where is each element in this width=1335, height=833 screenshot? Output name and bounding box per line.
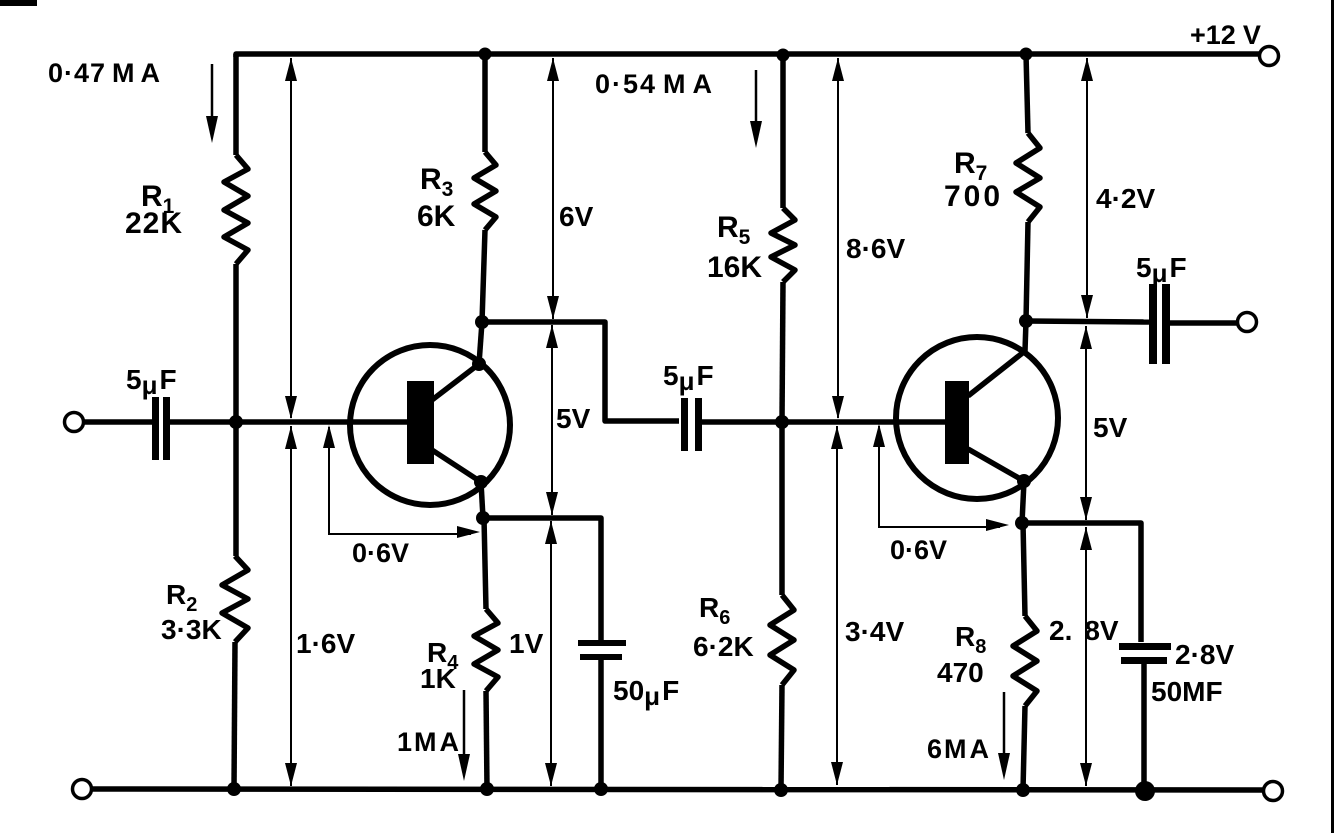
resistor R5: [771, 208, 795, 282]
wire R6 lower lead: [781, 685, 782, 790]
wire R8 upper lead: [1023, 523, 1025, 616]
node Q1 collector junction: [475, 315, 489, 329]
current arrow 6mA: [1003, 692, 1006, 756]
wire collector to coupling cap (stair): [482, 322, 679, 421]
measurement 6V: top rail to collector wire: [552, 58, 554, 319]
wire C5 to ground: [1141, 664, 1147, 791]
measurement 0.6V Q1: [329, 427, 471, 534]
transistor Q1 circle: [350, 345, 510, 505]
svg-text:8·6V: 8·6V: [846, 233, 905, 264]
wire R8 lower lead: [1023, 706, 1025, 790]
node Q2 collector junction: [1019, 314, 1033, 328]
terminal +12V: [1260, 47, 1279, 66]
svg-text:0·47MA: 0·47MA: [48, 58, 161, 88]
border right edge: [1331, 0, 1334, 833]
resistor R6: [770, 595, 794, 685]
node R7 top junction: [1020, 48, 1033, 61]
current arrow 0.47mA: [211, 64, 214, 120]
transistor Q2 collector stroke: [968, 351, 1025, 396]
wire R4 lower lead: [486, 691, 487, 789]
measurement 0.6V Q2: [879, 426, 1000, 527]
svg-text:0·54MA: 0·54MA: [595, 69, 714, 99]
node ground: R2: [227, 782, 241, 796]
capacitor C2 5uF plates: [681, 398, 688, 451]
svg-text:6K: 6K: [417, 200, 456, 233]
resistor R3: [474, 152, 496, 230]
terminal input: [65, 413, 84, 432]
transistor Q1 collector stroke: [432, 364, 479, 400]
wire R3 top lead: [482, 54, 488, 152]
svg-text:5V: 5V: [556, 403, 591, 434]
measurement 2.8V: emitter wire to ground: [1085, 527, 1087, 786]
svg-text:6V: 6V: [559, 201, 594, 232]
svg-text:3·3K: 3·3K: [161, 614, 222, 645]
svg-text:16K: 16K: [707, 251, 762, 284]
resistor R7: [1016, 133, 1040, 222]
svg-text:6MA: 6MA: [927, 734, 989, 764]
svg-text:50MF: 50MF: [1151, 676, 1223, 707]
svg-text:5μF: 5μF: [1136, 252, 1187, 288]
terminal ground right: [1264, 782, 1283, 801]
transistor Q2 emitter stroke: [968, 449, 1024, 481]
wire collector to output cap: [1026, 321, 1149, 322]
svg-text:5V: 5V: [1093, 412, 1128, 443]
wire input terminal to C1: [84, 419, 152, 425]
wire R5 to interstage node: [782, 282, 783, 422]
resistor R4: [474, 609, 498, 691]
resistor R2: [222, 556, 248, 642]
measurement 8.6V: top rail to base wire: [837, 58, 839, 418]
resistor R1: [224, 155, 248, 264]
svg-text:4·2V: 4·2V: [1096, 183, 1155, 214]
resistor R8: [1013, 616, 1037, 706]
wire R1 to R2: [233, 264, 239, 556]
wire Q2 emitter riser: [1022, 481, 1024, 523]
svg-text:3·4V: 3·4V: [845, 616, 904, 647]
measurement 4.2V: top rail to collector wire: [1086, 58, 1088, 318]
node R5 top junction: [777, 49, 790, 62]
wire left branch R1 upper lead: [233, 54, 239, 155]
svg-text:2.8V: 2.8V: [1049, 615, 1119, 646]
wire Q1 collector riser: [479, 322, 482, 364]
svg-text:1K: 1K: [420, 663, 456, 694]
node ground: C5 big: [1135, 781, 1155, 801]
measurement line left: base wire to ground (1.6V): [290, 426, 292, 786]
capacitor C4 5uF plates: [1149, 284, 1157, 364]
svg-text:0·6V: 0·6V: [890, 535, 947, 565]
ground rail: [92, 789, 1263, 790]
measurement 5V right: collector to emitter wire: [1085, 326, 1087, 520]
svg-text:1·6V: 1·6V: [296, 628, 355, 659]
node Q1 emitter-circle blob: [474, 475, 488, 489]
node ground: C3: [594, 782, 608, 796]
node ground: R6: [774, 783, 788, 797]
wire output cap to terminal: [1170, 320, 1237, 326]
measurement 5V: collector wire to emitter wire: [551, 325, 553, 515]
node R3 top junction: [479, 48, 492, 61]
terminal output: [1238, 313, 1257, 332]
svg-text:+12V: +12V: [1190, 20, 1261, 50]
wire R3 to collector node: [482, 230, 485, 322]
capacitor C1 5uF plates: [152, 397, 159, 460]
wire emitter to bypass cap corner: [483, 518, 601, 641]
border mark top-left: [0, 0, 37, 6]
terminal ground left: [73, 780, 92, 799]
current arrow 1mA: [463, 690, 466, 756]
svg-text:700: 700: [944, 180, 1003, 213]
wire R4 upper lead: [484, 518, 486, 609]
node Q2 emitter junction: [1015, 516, 1029, 530]
capacitor C3 50uF plates: [578, 640, 626, 646]
wire C2 to Q2 base: [702, 419, 946, 425]
node input bias junction: [229, 415, 243, 429]
current arrow 0.54mA: [755, 70, 758, 124]
+12V supply rail: [236, 54, 1259, 57]
wire R2 lower lead: [234, 642, 235, 789]
transistor Q1 emitter stroke: [432, 450, 481, 482]
node Q2 emitter-circle blob: [1017, 474, 1031, 488]
transistor Q2 circle: [896, 337, 1058, 499]
wire emitter to bypass cap corner: [1022, 523, 1141, 642]
capacitor C5 50uF plates: [1119, 643, 1171, 650]
node ground: R8: [1016, 783, 1030, 797]
wire R7 to collector node: [1026, 222, 1028, 321]
wire C3 to ground: [598, 660, 604, 789]
node ground: R4: [480, 782, 494, 796]
node Q1 emitter junction: [476, 511, 490, 525]
measurement line left: top rail to base wire: [290, 58, 292, 418]
svg-text:1V: 1V: [509, 628, 544, 659]
svg-text:50μF: 50μF: [613, 675, 679, 711]
svg-text:5μF: 5μF: [663, 360, 714, 396]
measurement 1V: emitter wire to ground: [550, 521, 552, 786]
transistor Q2 base bar: [945, 381, 969, 464]
wire R6 upper lead: [779, 422, 785, 595]
svg-text:470: 470: [937, 657, 984, 688]
svg-text:1MA: 1MA: [397, 727, 459, 757]
wire R5 top lead: [780, 54, 786, 208]
wire Q1 emitter riser: [481, 482, 483, 518]
svg-text:0·6V: 0·6V: [352, 538, 409, 568]
node interstage bias junction: [775, 415, 789, 429]
transistor Q1 base bar: [407, 381, 434, 464]
svg-text:22K: 22K: [125, 207, 183, 240]
wire R7 top lead: [1026, 54, 1028, 133]
svg-text:5μF: 5μF: [126, 364, 177, 400]
node Q1 collector-circle blob: [472, 357, 486, 371]
measurement 3.4V: base wire to ground: [836, 426, 838, 785]
svg-text:2·8V: 2·8V: [1175, 639, 1234, 670]
wire C1 to Q1 base: [170, 419, 408, 425]
svg-text:6·2K: 6·2K: [693, 631, 754, 662]
wire Q2 collector riser: [1025, 321, 1026, 351]
